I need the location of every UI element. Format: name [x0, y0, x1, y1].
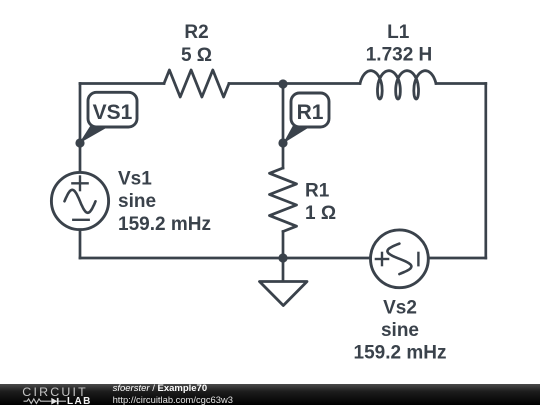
svg-text:LAB: LAB	[67, 396, 92, 405]
